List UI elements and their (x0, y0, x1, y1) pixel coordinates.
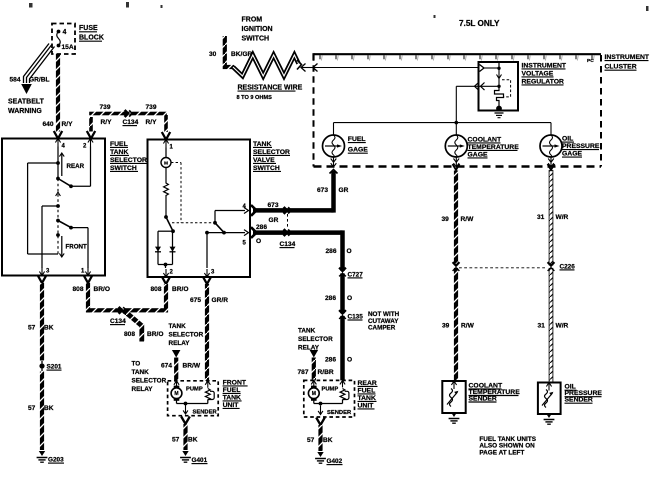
svg-text:INSTRUMENT: INSTRUMENT (605, 54, 650, 61)
svg-text:SENDER: SENDER (469, 395, 497, 402)
svg-text:C134: C134 (110, 318, 126, 325)
svg-text:286: 286 (256, 224, 267, 231)
svg-text:VALVE: VALVE (253, 157, 275, 164)
svg-text:808: 808 (151, 286, 162, 293)
svg-text:IGNITION: IGNITION (242, 26, 273, 33)
svg-text:C134: C134 (123, 119, 139, 126)
svg-text:BK/GR: BK/GR (231, 51, 252, 58)
svg-text:R/Y: R/Y (101, 119, 113, 126)
svg-text:TANK: TANK (132, 369, 150, 376)
svg-text:286: 286 (325, 357, 336, 364)
svg-text:FRONT: FRONT (66, 244, 88, 251)
svg-text:VOLTAGE: VOLTAGE (522, 70, 554, 77)
svg-text:286: 286 (326, 248, 337, 255)
svg-text:PRESSURE: PRESSURE (562, 143, 600, 150)
svg-text:REAR: REAR (358, 380, 377, 387)
svg-text:FUEL: FUEL (358, 387, 376, 394)
svg-text:PAGE AT LEFT: PAGE AT LEFT (479, 449, 524, 456)
svg-text:W/R: W/R (556, 323, 569, 330)
svg-text:SELECTOR: SELECTOR (169, 332, 204, 339)
svg-text:FUEL: FUEL (223, 387, 241, 394)
svg-text:15A: 15A (62, 44, 74, 51)
svg-text:GR/R: GR/R (212, 297, 229, 304)
svg-text:FUEL: FUEL (348, 136, 366, 143)
svg-text:O: O (347, 295, 352, 302)
svg-text:7.5L ONLY: 7.5L ONLY (459, 19, 500, 28)
svg-text:640: 640 (43, 121, 54, 128)
svg-text:C135: C135 (348, 313, 364, 320)
svg-text:675: 675 (190, 297, 201, 304)
svg-text:39: 39 (442, 216, 450, 223)
svg-text:O: O (347, 248, 352, 255)
svg-text:TEMPERATURE: TEMPERATURE (468, 144, 520, 151)
svg-text:O: O (347, 357, 352, 364)
svg-text:31: 31 (538, 323, 546, 330)
svg-text:PUMP: PUMP (186, 386, 203, 392)
svg-text:C226: C226 (560, 263, 576, 270)
svg-text:SWITCH: SWITCH (253, 165, 280, 172)
svg-text:57: 57 (172, 437, 180, 444)
svg-text:TANK: TANK (298, 328, 316, 335)
svg-text:739: 739 (100, 104, 111, 111)
svg-text:286: 286 (325, 295, 336, 302)
svg-text:INSTRUMENT: INSTRUMENT (522, 62, 567, 69)
svg-text:BR/O: BR/O (94, 286, 110, 293)
svg-text:SELECTOR: SELECTOR (110, 157, 147, 164)
svg-text:TANK: TANK (169, 323, 187, 330)
svg-text:W/R: W/R (556, 214, 569, 221)
svg-text:UNIT: UNIT (358, 402, 375, 409)
svg-text:O: O (256, 238, 261, 245)
svg-text:SENDER: SENDER (565, 397, 593, 404)
svg-text:CLUSTER: CLUSTER (605, 64, 637, 71)
svg-text:TANK: TANK (358, 395, 376, 402)
svg-text:GAGE: GAGE (468, 151, 488, 158)
svg-text:SENDER: SENDER (193, 410, 218, 416)
svg-text:30: 30 (209, 51, 217, 58)
svg-text:FUSE: FUSE (79, 25, 98, 32)
svg-text:GR: GR (339, 187, 349, 194)
svg-text:31: 31 (537, 214, 545, 221)
svg-text:M: M (174, 391, 178, 397)
svg-text:808: 808 (73, 286, 84, 293)
svg-text:BK: BK (188, 437, 198, 444)
svg-text:G203: G203 (48, 457, 64, 464)
svg-text:SEATBELT: SEATBELT (8, 99, 45, 106)
svg-text:BR/W: BR/W (183, 363, 201, 370)
svg-text:GR: GR (269, 217, 279, 224)
svg-text:COOLANT: COOLANT (468, 136, 502, 143)
svg-text:R/Y: R/Y (146, 119, 158, 126)
svg-text:R/W: R/W (461, 216, 475, 223)
svg-text:PUMP: PUMP (322, 386, 339, 392)
svg-text:SELECTOR: SELECTOR (132, 378, 167, 385)
svg-text:FROM: FROM (242, 17, 263, 24)
svg-text:GR/BL: GR/BL (29, 77, 50, 84)
svg-text:CAMPER: CAMPER (368, 325, 396, 332)
svg-text:SELECTOR: SELECTOR (298, 336, 333, 343)
svg-text:M: M (312, 391, 316, 397)
svg-text:REAR: REAR (67, 163, 85, 170)
svg-text:FUEL: FUEL (110, 141, 128, 148)
svg-text:57: 57 (307, 437, 315, 444)
svg-text:M: M (164, 161, 168, 166)
svg-text:4: 4 (63, 29, 67, 36)
svg-text:C134: C134 (280, 241, 296, 248)
svg-text:SELECTOR: SELECTOR (253, 149, 290, 156)
svg-text:673: 673 (268, 202, 279, 209)
svg-text:G402: G402 (327, 458, 343, 465)
svg-text:BLOCK: BLOCK (79, 35, 104, 42)
svg-text:787: 787 (298, 369, 309, 376)
svg-text:584: 584 (10, 77, 21, 84)
svg-text:SWITCH: SWITCH (242, 36, 270, 43)
svg-text:GAGE: GAGE (348, 147, 368, 154)
svg-text:G401: G401 (192, 457, 208, 464)
svg-text:UNIT: UNIT (223, 402, 240, 409)
svg-text:PC: PC (587, 58, 594, 64)
svg-text:TANK: TANK (110, 149, 128, 156)
svg-text:SWITCH: SWITCH (110, 165, 137, 172)
svg-text:BK: BK (323, 437, 333, 444)
svg-text:S201: S201 (47, 364, 62, 371)
svg-text:TO: TO (132, 361, 141, 368)
svg-text:808: 808 (124, 331, 135, 338)
svg-text:TANK: TANK (253, 141, 271, 148)
svg-text:BR/O: BR/O (172, 286, 188, 293)
svg-text:REGULATOR: REGULATOR (522, 78, 565, 85)
svg-text:FRONT: FRONT (223, 379, 247, 386)
svg-text:OIL: OIL (562, 136, 573, 143)
svg-text:8 TO 9 OHMS: 8 TO 9 OHMS (237, 95, 273, 101)
svg-text:RELAY: RELAY (169, 340, 191, 347)
svg-text:BK: BK (44, 325, 54, 332)
svg-text:WARNING: WARNING (8, 108, 42, 115)
svg-text:BR/O: BR/O (147, 331, 163, 338)
svg-text:BK: BK (44, 405, 54, 412)
svg-text:673: 673 (317, 187, 328, 194)
svg-text:674: 674 (161, 363, 172, 370)
svg-text:RESISTANCE WIRE: RESISTANCE WIRE (238, 85, 303, 92)
svg-text:R/Y: R/Y (62, 121, 74, 128)
svg-text:TANK: TANK (223, 394, 241, 401)
svg-text:57: 57 (28, 405, 36, 412)
svg-text:RELAY: RELAY (132, 386, 154, 393)
svg-text:R/BR: R/BR (318, 369, 334, 376)
svg-text:39: 39 (442, 323, 450, 330)
svg-text:57: 57 (28, 325, 36, 332)
svg-text:GAGE: GAGE (562, 151, 582, 158)
svg-text:C727: C727 (348, 271, 364, 278)
svg-text:SENDER: SENDER (327, 410, 352, 416)
svg-text:739: 739 (146, 104, 157, 111)
svg-text:R/W: R/W (461, 323, 475, 330)
